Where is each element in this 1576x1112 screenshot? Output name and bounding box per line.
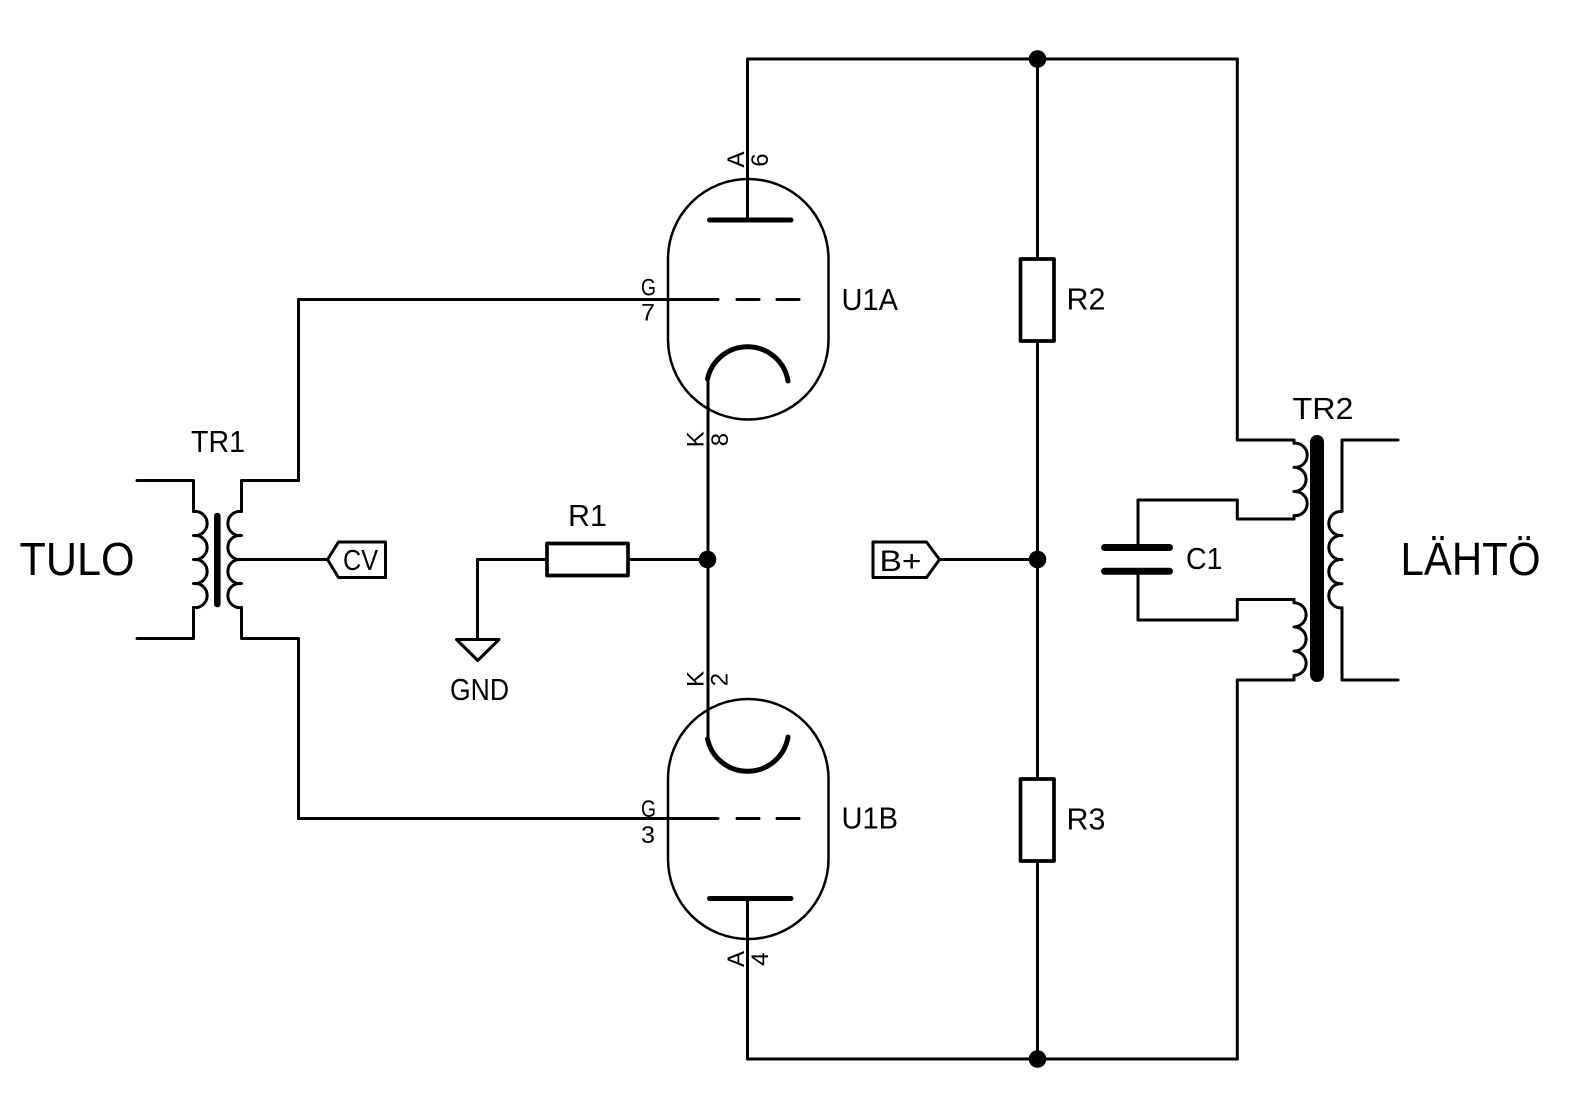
svg-text:TR1: TR1 bbox=[191, 424, 245, 459]
svg-text:GND: GND bbox=[450, 672, 509, 707]
node junction top bbox=[1029, 50, 1047, 68]
transformer TR2 secondary bottom lead bbox=[1342, 679, 1398, 682]
U1B grid dashes bbox=[737, 817, 799, 820]
transformer TR1 primary winding bbox=[194, 511, 208, 607]
wire B+ vertical rail middle bbox=[1036, 341, 1039, 779]
svg-text:7: 7 bbox=[641, 300, 655, 327]
ground bbox=[457, 640, 500, 661]
wire grid B vertical bbox=[297, 639, 300, 819]
svg-text:K: K bbox=[683, 671, 710, 687]
capacitor C1 bottom plate bbox=[1105, 568, 1170, 575]
svg-text:C1: C1 bbox=[1186, 541, 1223, 576]
svg-text:A: A bbox=[723, 951, 750, 967]
U1B grid wire pin 3 bbox=[299, 817, 719, 820]
U1B cathode arc bbox=[708, 737, 789, 771]
U1A cathode arc bbox=[708, 347, 789, 381]
svg-text:8: 8 bbox=[707, 433, 734, 446]
svg-text:K: K bbox=[683, 431, 710, 447]
wire TR1 center tap bbox=[242, 558, 328, 561]
U1A grid wire pin 7 bbox=[299, 298, 719, 301]
wire B+ vertical rail upper bbox=[1036, 59, 1039, 259]
transformer TR2 primary lower winding bbox=[1294, 600, 1306, 681]
resistor R3 bbox=[1021, 779, 1055, 861]
svg-text:2: 2 bbox=[707, 673, 734, 686]
wire C1 bottom path bbox=[1138, 571, 1294, 620]
flag B+ bbox=[873, 542, 940, 578]
wire top rail B+ bbox=[748, 58, 1238, 61]
svg-text:TULO: TULO bbox=[20, 533, 135, 585]
svg-text:3: 3 bbox=[641, 822, 655, 849]
op-amp U1A triode envelope bbox=[668, 179, 829, 420]
U1A anode lead pin 6 bbox=[746, 59, 749, 220]
svg-text:B+: B+ bbox=[880, 545, 922, 578]
wire B+ vertical rail lower bbox=[1036, 861, 1039, 1059]
svg-text:G: G bbox=[641, 796, 656, 823]
svg-text:R1: R1 bbox=[568, 498, 607, 533]
svg-text:U1A: U1A bbox=[842, 282, 899, 317]
svg-text:G: G bbox=[641, 275, 656, 302]
transformer TR1 left lead bottom bbox=[137, 608, 194, 639]
capacitor C1 top plate bbox=[1105, 544, 1170, 551]
U1A cathode lead pin 8 bbox=[707, 379, 710, 560]
svg-text:R3: R3 bbox=[1067, 802, 1106, 837]
svg-text:CV: CV bbox=[343, 545, 379, 577]
transformer TR1 right lead top bbox=[242, 481, 299, 512]
U1B anode plate bbox=[710, 896, 792, 901]
U1B cathode lead pin 2 bbox=[707, 560, 710, 740]
wire B+ to rail bbox=[940, 558, 1038, 561]
node junction cathode/R1 bbox=[699, 551, 717, 569]
node junction B+ bbox=[1029, 551, 1047, 569]
transformer TR2 secondary top lead bbox=[1342, 439, 1398, 442]
transformer TR2 core bbox=[1310, 442, 1324, 675]
svg-text:A: A bbox=[723, 151, 750, 167]
svg-text:6: 6 bbox=[747, 153, 774, 166]
transformer TR1 core bbox=[214, 516, 221, 604]
U1A anode plate bbox=[710, 218, 792, 223]
svg-text:R2: R2 bbox=[1067, 282, 1106, 317]
op-amp U1B triode envelope bbox=[668, 699, 829, 939]
transformer TR2 secondary winding bbox=[1329, 440, 1342, 680]
U1A grid dashes bbox=[737, 298, 799, 301]
transformer TR1 left lead top bbox=[137, 481, 194, 512]
svg-text:TR2: TR2 bbox=[1293, 391, 1354, 426]
wire bottom rail bbox=[748, 1058, 1238, 1061]
resistor R2 bbox=[1021, 259, 1055, 341]
transformer TR1 secondary winding bbox=[228, 511, 242, 607]
flag CV bbox=[328, 542, 386, 578]
svg-text:U1B: U1B bbox=[842, 801, 899, 836]
resistor R1 bbox=[547, 544, 628, 576]
wire R1 left bbox=[478, 560, 548, 640]
wire R1 right bbox=[628, 558, 708, 561]
transformer TR2 primary bottom lead bbox=[1237, 680, 1294, 1059]
transformer TR1 right lead bottom bbox=[242, 608, 299, 639]
svg-text:4: 4 bbox=[747, 952, 774, 965]
wire grid A vertical bbox=[297, 300, 300, 481]
wire C1 top path bbox=[1138, 500, 1294, 548]
U1B anode lead pin 4 bbox=[746, 899, 749, 1060]
transformer TR2 primary top lead bbox=[1237, 59, 1294, 443]
transformer TR2 primary upper winding bbox=[1294, 443, 1307, 519]
svg-text:LÄHTÖ: LÄHTÖ bbox=[1401, 533, 1541, 585]
node junction bottom bbox=[1029, 1050, 1047, 1068]
